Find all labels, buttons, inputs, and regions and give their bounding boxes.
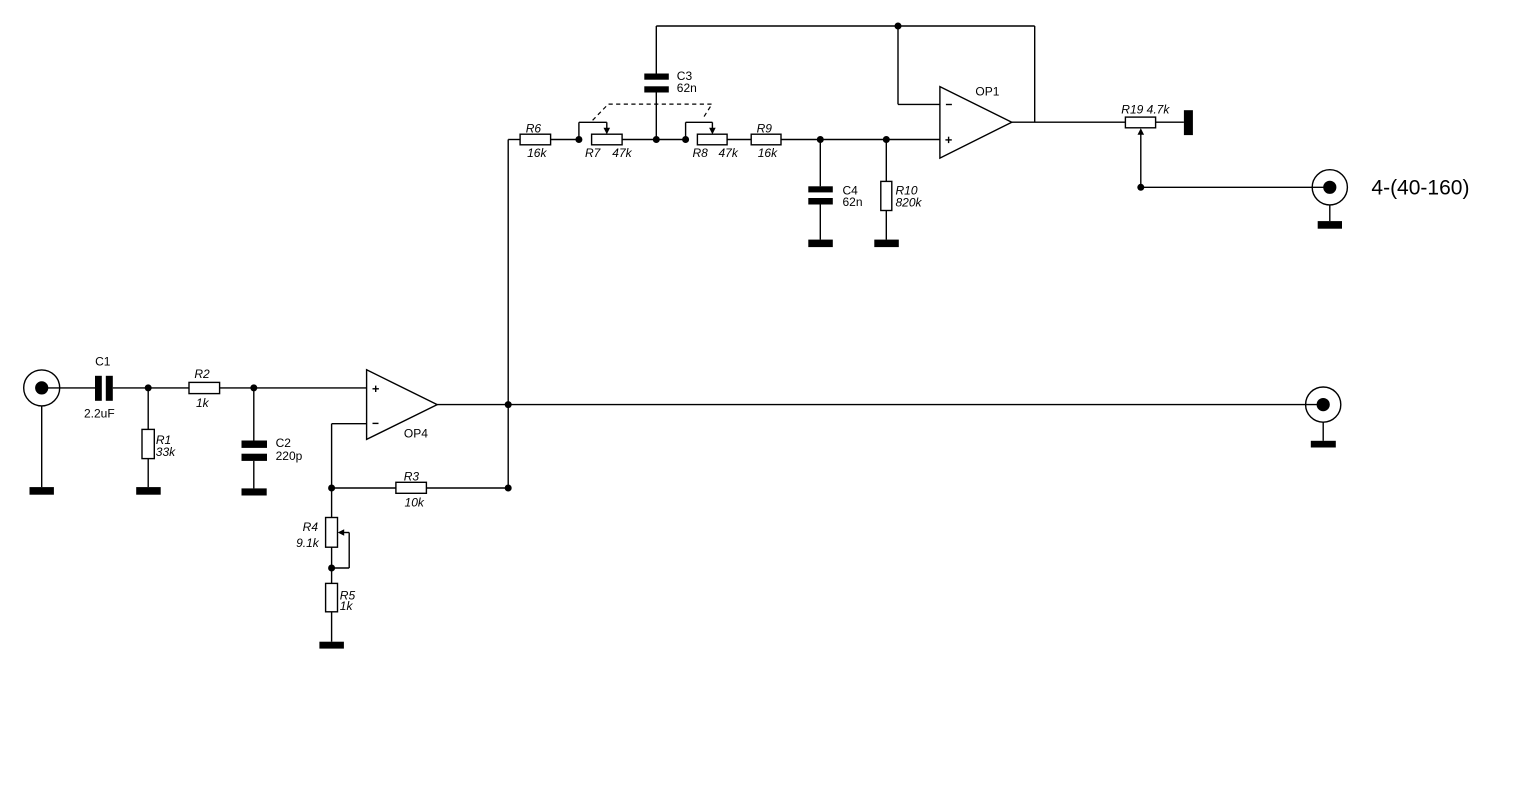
wire R6 to node G (551, 139, 579, 141)
wire node A to R2 (148, 387, 189, 389)
node K junction (R10) (883, 136, 890, 143)
ground (J3) (1311, 441, 1336, 448)
svg-text:62n: 62n (677, 81, 697, 95)
terminal stub (1184, 110, 1193, 135)
wire C1 to node A (113, 387, 148, 389)
wire OP4 - input left (332, 423, 367, 425)
wire C3 top riser (655, 93, 657, 140)
wire R10 to ground (885, 211, 887, 240)
wire C3 to top rail (655, 26, 657, 74)
capacitor C3 (644, 74, 669, 93)
svg-text:R6: R6 (526, 121, 542, 135)
wire node B to OP4 + input (254, 387, 367, 389)
op-amp OP4 (367, 370, 438, 440)
node C junction (328, 485, 335, 492)
svg-text:33k: 33k (156, 445, 176, 459)
ground (input) (30, 487, 54, 495)
svg-text:1k: 1k (340, 599, 354, 613)
wire node M to output connector (1141, 186, 1330, 188)
svg-text:OP4: OP4 (404, 427, 428, 441)
output connector J2 (1312, 170, 1347, 205)
wire node C down to R4 (331, 488, 333, 518)
node G junction (575, 136, 582, 143)
svg-text:16k: 16k (527, 146, 547, 160)
node L junction (top rail) (895, 23, 902, 30)
potentiometer R7 (592, 134, 623, 145)
wire OP1 output to R19 (1012, 121, 1126, 123)
wire riser elbow to R6 (508, 139, 520, 141)
svg-text:16k: 16k (758, 146, 778, 160)
R7 wiper arrow (579, 122, 610, 139)
svg-text:9.1k: 9.1k (296, 536, 320, 550)
resistor R6 (520, 134, 551, 145)
op-amp OP1 (940, 87, 1012, 159)
wire vertical node E riser (507, 140, 509, 489)
node B junction (250, 384, 257, 391)
wire R2 to node B (220, 387, 254, 389)
ground (C4) (808, 240, 833, 248)
capacitor C4 (808, 186, 833, 204)
OP4 minus sign (373, 422, 379, 424)
svg-text:10k: 10k (405, 496, 425, 510)
input connector J1 (24, 370, 60, 406)
ground (R5) (319, 642, 344, 649)
wire J1 to C1 (42, 387, 95, 389)
OP4 plus sign (373, 386, 379, 392)
node F junction (R4 wiper / R5) (328, 565, 335, 572)
svg-text:47k: 47k (719, 146, 739, 160)
wire down to node C (331, 424, 333, 488)
node A junction (145, 384, 152, 391)
svg-text:R19 4.7k: R19 4.7k (1121, 103, 1170, 117)
wire node L down to OP1 - input (898, 26, 940, 104)
wire J2 ground stem (1329, 205, 1331, 221)
potentiometer R8 (697, 134, 727, 145)
svg-text:4-(40-160): 4-(40-160) (1371, 177, 1469, 200)
wire R9 to OP1 + input (781, 139, 940, 141)
wire top rail (656, 25, 1034, 27)
wire top rail down to OP1 output (1034, 26, 1036, 122)
node E junction (505, 401, 512, 408)
wire node B down to C2 (253, 388, 255, 441)
wire node E to output connector (508, 404, 1323, 406)
capacitor C2 (242, 441, 268, 461)
svg-text:R7: R7 (585, 146, 602, 160)
OP1 plus sign (945, 137, 951, 143)
output connector J3 (1306, 387, 1341, 422)
svg-text:47k: 47k (612, 146, 632, 160)
svg-text:R8: R8 (693, 146, 709, 160)
wire R10 drop (885, 140, 887, 182)
svg-text:62n: 62n (843, 195, 863, 209)
R4 wiper arrow (332, 529, 350, 568)
wire R7 to node H (C3 tap) (622, 139, 686, 141)
svg-text:R3: R3 (404, 470, 420, 484)
resistor R9 (751, 134, 781, 145)
resistor R10 (881, 181, 892, 210)
potentiometer R4 (326, 518, 338, 548)
ground (R1) (136, 487, 161, 495)
wire OP4 output to node E (437, 404, 508, 406)
svg-text:220p: 220p (276, 449, 303, 463)
resistor R1 (142, 429, 154, 458)
wire J3 ground stem (1322, 422, 1324, 441)
node M junction (R19 wiper) (1137, 184, 1144, 191)
wire R4 to R5 (331, 547, 333, 583)
ground (J2) (1318, 221, 1342, 229)
R8 wiper arrow (686, 122, 716, 139)
potentiometer R19 (1125, 117, 1155, 128)
wire R8 to R9 (727, 139, 751, 141)
wire R5 to ground (331, 612, 333, 642)
svg-text:820k: 820k (896, 196, 923, 210)
svg-text:1k: 1k (196, 396, 210, 410)
resistor R5 (326, 583, 338, 611)
dashed gang link R7-R8 (593, 104, 712, 120)
capacitor C1 (95, 376, 113, 401)
wire R3 to node D (426, 487, 508, 489)
svg-text:R2: R2 (194, 367, 210, 381)
OP1 minus sign (946, 104, 952, 106)
wire R19 to terminal (1156, 121, 1184, 123)
node H junction (653, 136, 660, 143)
svg-text:C2: C2 (276, 436, 292, 450)
ground (C2) (242, 488, 267, 495)
wire R1 to ground (147, 459, 149, 488)
wire node A down to R1 (147, 388, 149, 430)
wire C2 to ground (253, 461, 255, 489)
node I junction (682, 136, 689, 143)
resistor R3 (396, 482, 427, 493)
svg-text:C1: C1 (95, 355, 111, 369)
R19 wiper arrow (1138, 128, 1145, 187)
svg-text:R4: R4 (303, 520, 319, 534)
ground (R10) (874, 240, 899, 248)
wire node C to R3 (332, 487, 396, 489)
node D junction (505, 485, 512, 492)
wire C4 drop (819, 140, 821, 187)
svg-text:2.2uF: 2.2uF (84, 407, 115, 421)
svg-text:OP1: OP1 (975, 85, 999, 99)
wire J1 ground stem (41, 406, 43, 488)
svg-text:R9: R9 (757, 121, 773, 135)
wire C4 to ground (819, 205, 821, 240)
resistor R2 (189, 382, 220, 393)
node J junction (C4) (817, 136, 824, 143)
